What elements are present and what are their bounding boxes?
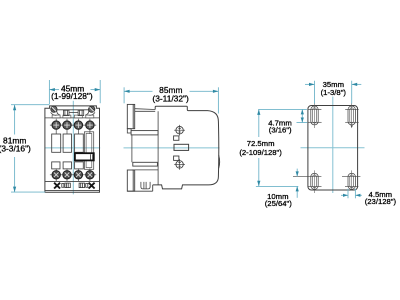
svg-text:(3-3/16"): (3-3/16") bbox=[0, 144, 31, 154]
side view top wedge lines bbox=[135, 109, 156, 112]
front view bottom terminal screw 1 bbox=[52, 171, 60, 179]
svg-text:(1-3/8"): (1-3/8") bbox=[321, 88, 347, 97]
front view right column inner bbox=[86, 133, 92, 167]
dimension 85mm bbox=[124, 87, 218, 113]
side view small rect upper bbox=[174, 136, 179, 140]
dimension 81mm bbox=[11, 105, 49, 192]
front view top screw row ticks bbox=[50, 119, 96, 134]
side view notch bbox=[127, 129, 131, 133]
front view bottom cap edges bbox=[45, 181, 100, 190]
centerline front view horizontal bbox=[45, 147, 100, 149]
svg-text:(3-11/32"): (3-11/32") bbox=[152, 94, 189, 104]
front view bottom cap mid rect right bbox=[79, 183, 88, 188]
front view bottom cap mid rect left bbox=[62, 183, 71, 188]
front view top corner screw left bbox=[51, 106, 57, 112]
front view top cap details bbox=[45, 110, 100, 118]
dimension 4.5mm bbox=[341, 189, 362, 199]
side view channel walls bbox=[132, 111, 158, 185]
rear view slot bottom-left bbox=[311, 173, 318, 189]
rear view slot arrow mark bbox=[351, 125, 353, 128]
centerline rear view horizontal bbox=[301, 147, 365, 149]
front view bottom terminal screw 4 bbox=[86, 171, 94, 179]
rear view body bbox=[308, 106, 358, 191]
front view top terminal screw 3 bbox=[74, 121, 82, 129]
svg-text:(25/64"): (25/64") bbox=[265, 199, 293, 208]
side view base line bbox=[127, 185, 152, 191]
rear view slot centerlines bbox=[315, 103, 352, 193]
svg-text:(23/128"): (23/128") bbox=[365, 197, 397, 206]
centerline side view horizontal bbox=[124, 147, 220, 149]
front view small square 1 bbox=[52, 162, 60, 169]
side view right edge bump bbox=[218, 155, 221, 168]
front view bottom screw row ticks bbox=[50, 168, 96, 181]
dimension 45mm bbox=[49, 80, 100, 104]
front view bottom terminal screw 3 bbox=[74, 171, 82, 179]
side view clip u-detail bbox=[141, 182, 150, 189]
svg-text:(1-99/128"): (1-99/128") bbox=[51, 91, 93, 101]
front view wire ports row bbox=[52, 115, 94, 118]
dimension 4.7mm bbox=[258, 109, 307, 122]
front view small square 2 bbox=[63, 162, 71, 169]
rear view slot bottom-right bbox=[348, 173, 355, 189]
dimension 35mm bbox=[305, 81, 361, 104]
side view small rect lower bbox=[174, 156, 179, 160]
front view top terminal screw 2 bbox=[63, 121, 71, 129]
side view lower shelf line bbox=[132, 169, 158, 171]
side view adjuster screw top bbox=[174, 125, 185, 136]
front view right column outer bbox=[84, 132, 93, 170]
front view outline bbox=[45, 106, 100, 192]
front view window 1 bbox=[52, 134, 61, 152]
side view adjuster screw bottom bbox=[174, 159, 185, 170]
rear view slot top-right bbox=[348, 106, 355, 125]
svg-text:(3/16"): (3/16") bbox=[269, 126, 292, 135]
front view small square 3 bbox=[75, 162, 84, 169]
front view top corner screw right bbox=[89, 106, 95, 112]
dimension 10mm bbox=[256, 169, 298, 198]
svg-text:72.5mm: 72.5mm bbox=[247, 139, 275, 148]
svg-text:(2-109/128"): (2-109/128") bbox=[239, 148, 282, 157]
front view bottom corner fixing X right bbox=[89, 183, 95, 189]
front view bottom corner fixing X left bbox=[54, 183, 60, 189]
front view window 2 bbox=[63, 134, 71, 152]
front view bottom terminal screw 2 bbox=[63, 171, 71, 179]
front view top terminal screw 1 bbox=[52, 121, 60, 129]
side view DIN hook block bbox=[127, 104, 134, 128]
dimension 72.5mm bbox=[258, 109, 260, 186]
front view top terminal screw 4 bbox=[86, 121, 94, 129]
front view contact indicator thick rect bbox=[75, 153, 94, 160]
centerline rear view vertical bbox=[332, 97, 334, 194]
side view label window bbox=[174, 144, 189, 150]
rear view slot top-left bbox=[311, 106, 318, 125]
rear view slot ticks bbox=[293, 109, 360, 186]
front view window 3 bbox=[75, 134, 84, 152]
side view upper band bbox=[131, 131, 158, 135]
side view bottom clip block bbox=[127, 170, 134, 191]
centerline front view vertical bbox=[72, 101, 74, 195]
side view main body outline bbox=[153, 106, 219, 189]
side view lower bar bbox=[133, 162, 158, 166]
